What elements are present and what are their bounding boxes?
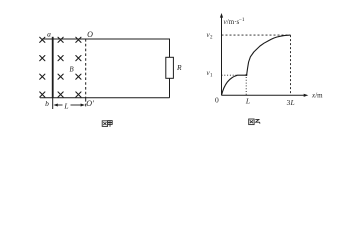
svg-text:L: L [290, 98, 295, 107]
svg-text:L: L [245, 97, 250, 106]
svg-text:L: L [63, 101, 68, 110]
svg-text:a: a [47, 30, 51, 39]
svg-text:O: O [87, 30, 93, 39]
svg-text:b: b [45, 99, 49, 108]
svg-text:−1: −1 [239, 17, 245, 23]
svg-text:/m·s: /m·s [227, 18, 240, 26]
svg-text:O′: O′ [86, 99, 94, 108]
svg-text:/m: /m [315, 92, 323, 100]
svg-text:R: R [176, 63, 182, 72]
svg-text:B: B [69, 65, 74, 73]
svg-text:0: 0 [215, 96, 219, 105]
